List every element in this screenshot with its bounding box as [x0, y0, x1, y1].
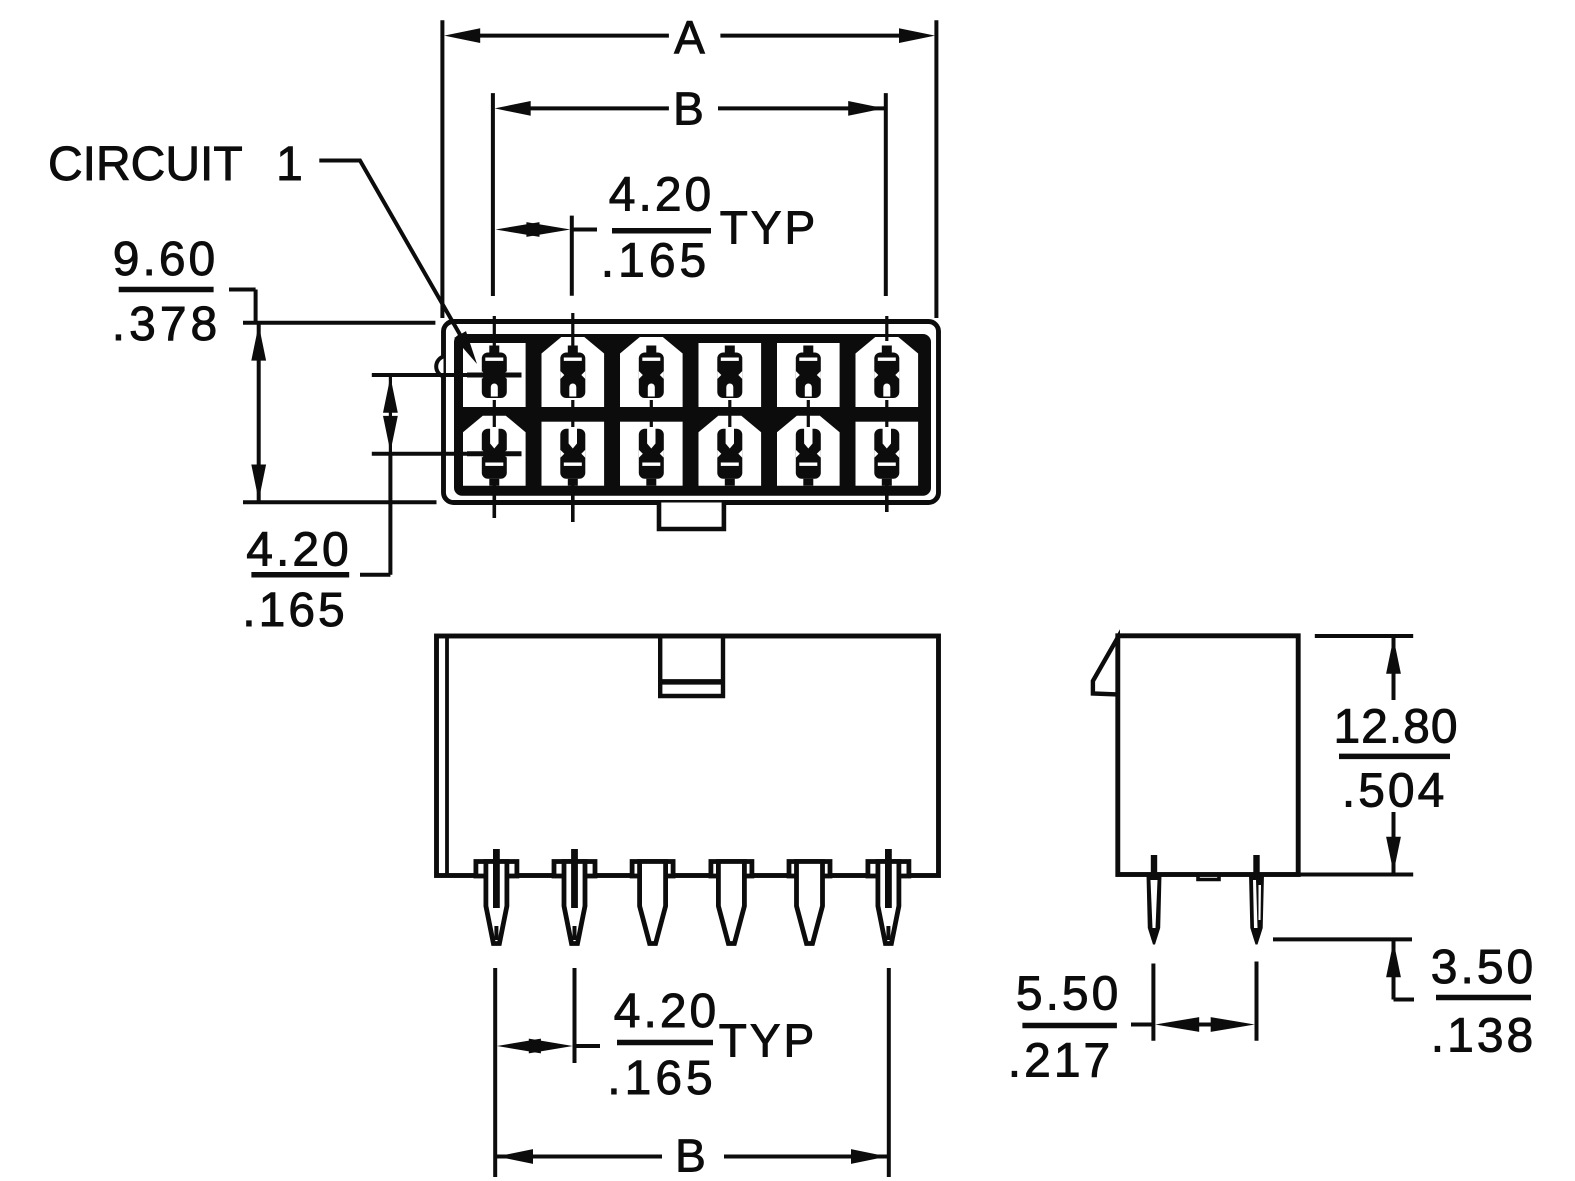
contact circuit 6 — [874, 346, 899, 399]
pin 4 (front view) — [711, 862, 752, 944]
contact circuit 3 — [639, 346, 664, 399]
pin row A (side view) — [1147, 855, 1162, 945]
top view: connector mating face — [436, 313, 938, 529]
contact circuit 5 — [796, 346, 821, 399]
svg-text:TYP: TYP — [719, 1015, 817, 1067]
svg-text:3.50: 3.50 — [1431, 941, 1536, 994]
svg-text:9.60: 9.60 — [113, 233, 218, 286]
svg-text:B: B — [673, 82, 707, 134]
contact circuit 9 — [639, 427, 664, 485]
extension lines below pins 1,2,6 — [493, 968, 497, 1177]
cavity circuit 5 — [777, 343, 840, 407]
dimension B (outer pin span, top) — [493, 82, 887, 296]
cavity circuit 6 — [856, 337, 919, 407]
svg-text:.165: .165 — [607, 1052, 716, 1105]
pin 6 (front view) — [868, 849, 909, 944]
svg-text:.165: .165 — [242, 584, 347, 637]
contact circuit 1 — [482, 346, 507, 399]
dimension 4.20/.165 TYP pitch (top view) — [496, 169, 819, 296]
top polarization notch — [660, 636, 723, 696]
svg-text:.217: .217 — [1008, 1034, 1113, 1087]
contact circuit 8 — [560, 427, 585, 485]
dimension 5.50/.217 (pin row spacing) — [1008, 962, 1257, 1088]
side view: connector body — [1093, 636, 1298, 880]
svg-text:4.20: 4.20 — [614, 985, 719, 1038]
mounting latch top-left — [1093, 638, 1118, 695]
pin 3 (front view) — [632, 862, 673, 944]
bottom polarization tab — [659, 503, 724, 530]
dimension A (overall width) — [442, 11, 936, 318]
inner left edge line — [445, 636, 449, 876]
bottom edge notch — [1198, 875, 1219, 880]
CIRCUIT 1 label and leader — [48, 138, 483, 367]
svg-text:1: 1 — [276, 138, 306, 191]
cavity circuit 9 — [620, 422, 683, 486]
centerline stubs above housing columns 1,2,6 — [493, 316, 496, 346]
dimension 9.60/.378 (housing height) — [112, 233, 437, 502]
svg-text:4.20: 4.20 — [609, 169, 714, 222]
dimension 12.80/.504 (body height) — [1298, 636, 1459, 875]
cavity block (black walls) — [454, 334, 931, 496]
cavity circuit 2 — [542, 337, 605, 407]
pin row B (side view) — [1249, 855, 1264, 945]
svg-text:A: A — [674, 11, 708, 63]
svg-text:CIRCUIT: CIRCUIT — [48, 138, 243, 191]
cavity circuit 1 — [463, 343, 526, 407]
cavity circuit 7 — [463, 416, 526, 486]
svg-text:12.80: 12.80 — [1333, 701, 1458, 754]
cavity circuit 3 — [620, 337, 683, 407]
cavity circuit 8 — [542, 422, 605, 486]
circuit 1 contact centerline ticks — [467, 373, 522, 378]
polarization rib bump on left edge — [436, 357, 443, 377]
pin 2 (front view) — [554, 849, 595, 944]
svg-text:B: B — [675, 1130, 709, 1181]
housing outline — [444, 322, 939, 503]
centerline stubs below housing columns 1,2,6 — [492, 486, 496, 519]
contact circuit 7 — [482, 427, 507, 485]
pin 1 (front view) — [476, 849, 517, 944]
svg-text:.138: .138 — [1431, 1010, 1536, 1063]
dimension 4.20/.165 row pitch (left side) — [242, 375, 521, 637]
cavity circuit 4 — [699, 343, 762, 407]
contact circuit 10 — [717, 427, 742, 485]
front view: connector body — [437, 636, 939, 876]
dimension 4.20/.165 TYP (bottom) — [497, 985, 817, 1105]
svg-text:TYP: TYP — [720, 202, 818, 254]
svg-text:.378: .378 — [112, 298, 221, 351]
svg-text:.504: .504 — [1342, 765, 1447, 818]
dimension 3.50/.138 (pin length) — [1273, 939, 1536, 1062]
svg-text:4.20: 4.20 — [246, 524, 351, 577]
contact circuit 11 — [796, 427, 821, 485]
cavity circuit 11 — [777, 416, 840, 486]
contact circuit 4 — [717, 346, 742, 399]
pin 5 (front view) — [789, 862, 830, 944]
contact circuit 12 — [874, 427, 899, 485]
cavity circuit 10 — [699, 416, 762, 486]
cavity circuit 12 — [856, 422, 919, 486]
svg-text:.165: .165 — [601, 235, 710, 288]
contact circuit 2 — [560, 346, 585, 399]
dimension B (bottom) — [497, 1130, 887, 1181]
svg-text:5.50: 5.50 — [1016, 967, 1121, 1020]
column centerline segments between rows — [493, 400, 496, 427]
